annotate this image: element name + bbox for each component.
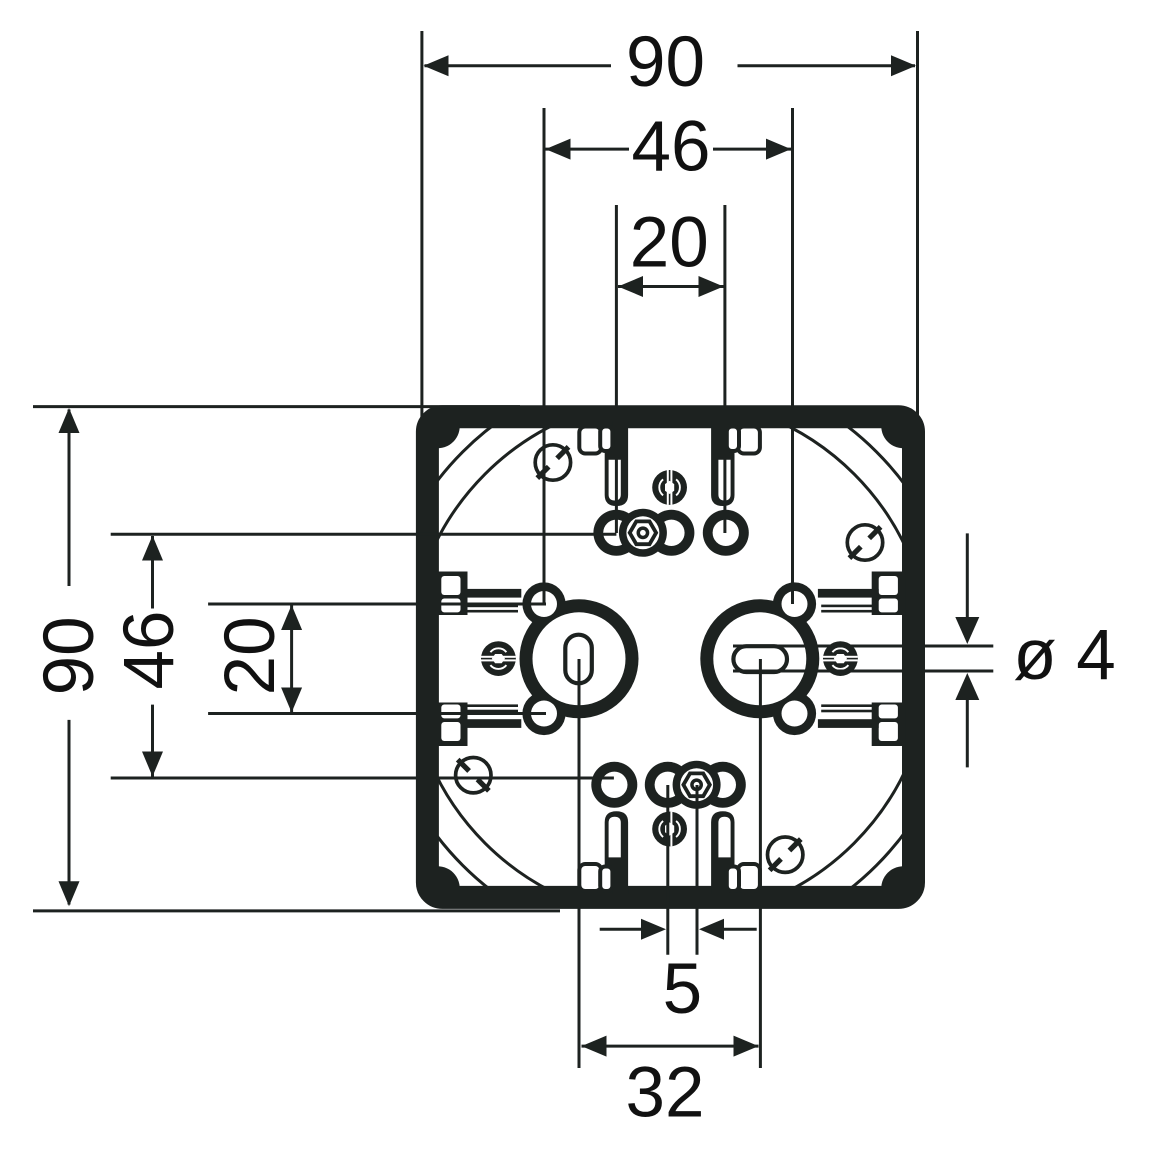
dim 20 left arrow bottom	[281, 688, 302, 713]
screw symbol bottom-right	[768, 837, 803, 872]
svg-text:46: 46	[632, 108, 711, 187]
dim 46 left extension line top	[111, 533, 617, 536]
svg-text:32: 32	[626, 1054, 705, 1133]
bottom-right cable channel	[711, 811, 734, 894]
dim 5 arrow left	[641, 919, 666, 940]
bottom mounting ring (left, 46mm ref)	[591, 762, 637, 808]
dim 90 left extension line bottom	[33, 909, 560, 912]
dim d4 arrow line bottom	[966, 695, 969, 767]
svg-text:ø 4: ø 4	[1013, 616, 1116, 695]
box outline (90x90 housing wall)	[427, 417, 913, 898]
dim 46 top arrow right	[766, 139, 791, 160]
dim 46 left arrow bottom	[142, 752, 163, 777]
dim 46 top line left segment	[546, 148, 630, 151]
grommet bottom	[652, 812, 687, 847]
dim 5 extension line right	[696, 785, 699, 955]
grommet left	[481, 641, 516, 676]
dim d4 arrow bottom	[955, 673, 979, 700]
dim d4 leader line top	[733, 645, 993, 648]
top hex boss B	[619, 509, 667, 557]
dim 32 arrow right	[734, 1036, 759, 1057]
top mounting ring (right, 20mm ref)	[703, 510, 749, 556]
left wall clip bracket	[434, 572, 468, 616]
dim 90 top arrow left	[424, 55, 449, 76]
top-left cable channel	[605, 421, 628, 506]
dim 90 left arrow top	[59, 408, 80, 433]
dim 90 left line bottom segment	[68, 720, 71, 905]
svg-text:20: 20	[211, 616, 290, 695]
bottom mounting ring A'	[700, 762, 746, 808]
dim 90 top line left segment	[425, 64, 612, 67]
dim 90 top extension line left	[420, 31, 423, 433]
svg-text:90: 90	[30, 616, 109, 695]
inner corner fillet bottom-right	[881, 866, 906, 891]
dim 90 top line right segment	[738, 64, 916, 67]
dim 46 top arrow left	[546, 139, 571, 160]
dim 90 top extension line right	[916, 31, 919, 484]
dim 46 left arrow top	[142, 536, 163, 561]
right wall clip bracket	[872, 572, 906, 616]
dim 20 left arrow top	[281, 605, 302, 630]
bottom hex boss B'	[673, 761, 721, 809]
grommet right	[823, 641, 858, 676]
dim d4 arrow line top	[966, 533, 969, 622]
left mounting boss (ears + circle)	[522, 582, 565, 625]
dim 20 left extension line top	[208, 603, 546, 606]
top mounting ring A	[593, 510, 639, 556]
dim 5 arrow right	[699, 919, 724, 940]
right mounting boss (ears + circle)	[773, 582, 816, 625]
dim 32 line	[582, 1045, 759, 1048]
dim d4 leader line bottom	[733, 670, 993, 673]
dim 20 top extension line right	[723, 205, 726, 533]
inner corner fillet top-left	[435, 423, 460, 448]
dim 46 left extension line bottom	[111, 777, 614, 780]
dim 5 extension line left	[666, 785, 669, 955]
left boss slot (vertical)	[565, 635, 592, 684]
dim d4 arrow top	[955, 617, 979, 644]
top-right cable channel	[711, 421, 734, 506]
dim 46 top line right segment	[713, 148, 791, 151]
dim 90 left line top segment	[68, 410, 71, 587]
dim 5 line right segment	[719, 928, 757, 931]
dim 20 left line	[290, 605, 293, 713]
dim 20 top line	[618, 285, 724, 288]
dim 46 left line bottom segment	[151, 705, 154, 777]
dim 20 top extension line left	[615, 205, 618, 533]
svg-text:20: 20	[630, 203, 709, 282]
dim 90 left arrow bottom	[59, 881, 80, 906]
dim 5 line left segment	[600, 928, 646, 931]
construction circle d95 (corner arcs)	[377, 366, 962, 951]
bottom-left cable channel	[605, 811, 628, 894]
top mounting ring C	[648, 510, 694, 556]
svg-text:46: 46	[110, 611, 189, 690]
dim 32 extension line left	[578, 659, 581, 1068]
svg-text:90: 90	[626, 23, 705, 102]
dim 46 left line top segment	[151, 536, 154, 609]
dim 32 extension line right	[759, 659, 762, 1068]
dim 20 top arrow left	[618, 276, 643, 297]
bottom mounting ring C'	[645, 762, 691, 808]
dim 46 top extension line right	[791, 108, 794, 604]
dim 32 arrow left	[582, 1036, 607, 1057]
construction circle d107 (corner arcs)	[377, 366, 962, 951]
screw symbol bottom-left	[456, 758, 491, 793]
dim 90 left extension line top	[33, 405, 520, 408]
right boss slot (horizontal, d4)	[733, 646, 787, 672]
dim 20 top arrow right	[699, 276, 724, 297]
dim 90 top arrow right	[891, 55, 916, 76]
dim 46 top extension line left	[543, 108, 546, 604]
screw symbol right-upper	[847, 525, 882, 560]
grommet top	[652, 470, 687, 505]
inner corner fillet top-right	[881, 423, 906, 448]
dim 20 left extension line bottom	[208, 712, 546, 715]
screw symbol top-left	[535, 445, 570, 480]
svg-text:5: 5	[663, 950, 703, 1029]
inner corner fillet bottom-left	[435, 866, 460, 891]
